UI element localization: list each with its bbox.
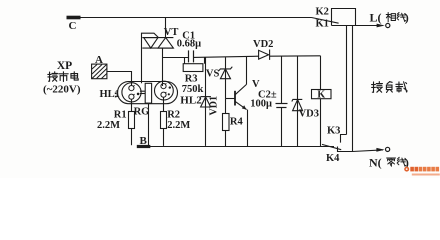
wire R2 to bottom bus xyxy=(163,129,165,146)
wire R3 branch right xyxy=(204,57,206,63)
wire N output xyxy=(353,150,384,152)
contact K4 arm xyxy=(322,144,341,149)
svg-text:K: K xyxy=(317,90,325,101)
resistor R2 xyxy=(161,112,167,129)
triac VT xyxy=(142,38,173,49)
wire HL1 to R1 xyxy=(131,99,133,111)
plug XP note jie-shi-dian xyxy=(48,72,58,81)
wire top bus to VT xyxy=(165,17,167,38)
contact K2 arm xyxy=(312,18,339,24)
svg-text:K4: K4 xyxy=(326,153,340,164)
wire C2 branch upper xyxy=(281,56,283,103)
wire VS branch upper xyxy=(225,57,227,98)
resistor R4 xyxy=(223,114,230,131)
capacitor C2 xyxy=(276,104,288,108)
wire VT gate to RG xyxy=(142,33,159,83)
svg-text:C: C xyxy=(69,20,77,32)
svg-text:VD1: VD1 xyxy=(209,96,220,115)
pin A hatched square xyxy=(92,64,107,79)
wire base lead xyxy=(226,98,236,100)
svg-text:2.2M: 2.2M xyxy=(97,120,120,131)
wire contact frame xyxy=(332,9,356,26)
svg-text:HL2: HL2 xyxy=(180,95,202,107)
wire R4 to bottom bus xyxy=(225,131,227,147)
svg-text:N(: N( xyxy=(369,155,382,169)
svg-text:HL1: HL1 xyxy=(100,89,120,100)
relay coil K xyxy=(312,90,332,99)
svg-text:VD3: VD3 xyxy=(299,109,319,120)
zener VS xyxy=(218,67,232,79)
wire pin A to HL1 xyxy=(107,72,132,86)
node C terminal tick xyxy=(67,16,81,20)
lamp assembly outline xyxy=(118,82,178,104)
resistor R1 xyxy=(129,112,135,129)
wire mid rail VD2 to K xyxy=(270,55,321,57)
wire top bus C xyxy=(79,17,312,19)
svg-text:(~220V): (~220V) xyxy=(43,84,81,96)
wire relay contact bus left xyxy=(346,26,348,135)
neon lamp HL1 xyxy=(122,83,141,102)
svg-text:B: B xyxy=(140,135,148,147)
wire collector to rail xyxy=(246,56,248,84)
wire mid rail C1 to VD2 xyxy=(194,56,259,57)
svg-text:XP: XP xyxy=(57,60,72,72)
contact K3 stub xyxy=(341,135,347,143)
svg-text:VD2: VD2 xyxy=(253,39,273,50)
load note jie-fu-zai xyxy=(372,82,383,93)
L output arrow xyxy=(377,24,385,28)
wire relay coil to bottom bus xyxy=(320,99,322,147)
wire bottom bus B xyxy=(149,146,334,148)
svg-text:100μ: 100μ xyxy=(250,98,272,109)
wire relay contact bus right xyxy=(352,26,354,152)
svg-text:RG: RG xyxy=(134,106,150,117)
svg-text:V: V xyxy=(252,79,260,90)
wire RG to bottom bus xyxy=(148,103,150,146)
svg-text:2.2M: 2.2M xyxy=(167,120,190,131)
wire bus end drop xyxy=(338,147,353,152)
wire VS to R4 xyxy=(225,98,227,114)
diode VD3 xyxy=(292,99,303,110)
wire VD3 branch xyxy=(297,56,299,146)
wire HL2 to R2 xyxy=(163,97,165,111)
diode VD2 xyxy=(259,50,270,60)
transistor V xyxy=(235,84,247,109)
wire R1 to bottom bus xyxy=(131,129,133,146)
neon lamp HL2 xyxy=(155,81,174,100)
wire R3 branch left xyxy=(184,58,186,64)
wire mid rail left xyxy=(163,57,189,59)
L output terminal xyxy=(386,23,390,27)
optical coupling lines xyxy=(140,91,145,93)
resistor R3 xyxy=(183,64,203,72)
wire VD1 branch xyxy=(205,57,207,145)
diode VD1 xyxy=(200,97,211,107)
N output terminal xyxy=(386,147,390,151)
node B terminal tick xyxy=(137,145,151,148)
svg-text:L(: L( xyxy=(370,11,382,25)
wire C2 to bottom bus xyxy=(281,108,283,147)
svg-text:R4: R4 xyxy=(230,116,244,127)
svg-text:0.68μ: 0.68μ xyxy=(177,39,201,50)
svg-text:K1: K1 xyxy=(316,18,329,29)
svg-text:): ) xyxy=(405,11,409,25)
wire VT to HL2 and rail xyxy=(162,48,164,86)
svg-text:VS: VS xyxy=(206,69,220,80)
svg-text:VT: VT xyxy=(164,27,179,38)
svg-text:K3: K3 xyxy=(327,125,340,136)
capacitor C1 xyxy=(189,50,194,62)
wire emitter to bottom bus xyxy=(247,110,249,146)
wire L output xyxy=(332,25,384,27)
N output arrow xyxy=(376,148,384,152)
watermark logo xyxy=(404,167,440,176)
svg-text:750k: 750k xyxy=(182,84,204,95)
wire rail to relay coil xyxy=(320,56,322,90)
photoresistor RG xyxy=(145,83,151,103)
svg-text:K2: K2 xyxy=(316,7,329,18)
